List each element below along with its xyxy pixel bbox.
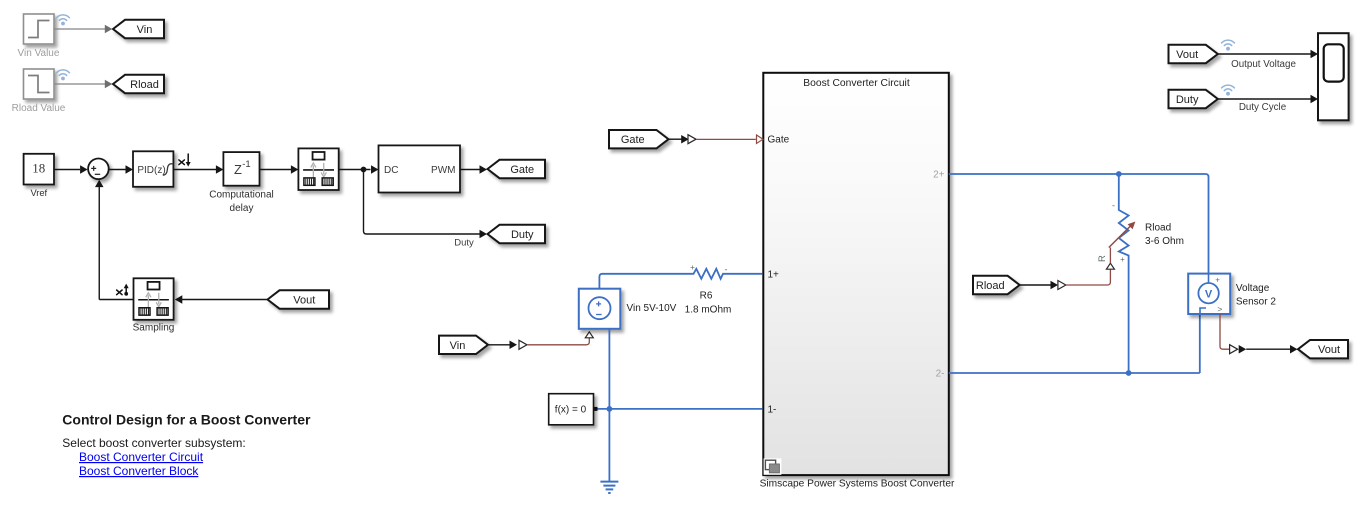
svg-text:Boost Converter Circuit: Boost Converter Circuit xyxy=(803,78,910,89)
svg-text:PID(z): PID(z) xyxy=(137,165,165,176)
svg-text:Rload: Rload xyxy=(976,280,1005,292)
svg-text:1.8 mOhm: 1.8 mOhm xyxy=(685,304,732,315)
svg-text:Duty: Duty xyxy=(454,238,474,249)
svg-text:-: - xyxy=(1112,201,1115,211)
svg-text:Computational: Computational xyxy=(209,189,273,200)
svg-text:Vin: Vin xyxy=(137,24,153,36)
svg-text:+: + xyxy=(1215,275,1220,284)
svg-text:R6: R6 xyxy=(700,290,713,301)
svg-text:Boost Converter Circuit: Boost Converter Circuit xyxy=(79,450,204,464)
svg-text:Output Voltage: Output Voltage xyxy=(1231,59,1296,70)
svg-text:Gate: Gate xyxy=(621,134,645,146)
svg-text:Duty Cycle: Duty Cycle xyxy=(1239,102,1287,113)
svg-text:Gate: Gate xyxy=(510,164,534,176)
svg-text:-1: -1 xyxy=(242,159,250,170)
svg-text:Control Design for a Boost Con: Control Design for a Boost Converter xyxy=(62,411,311,427)
svg-text:-: - xyxy=(725,264,728,274)
svg-text:Rload: Rload xyxy=(130,79,159,91)
svg-text:Gate: Gate xyxy=(768,135,790,146)
svg-text:1-: 1- xyxy=(768,405,777,416)
svg-text:R: R xyxy=(1097,255,1108,262)
svg-text:Vref: Vref xyxy=(30,188,47,198)
svg-text:>: > xyxy=(1217,304,1222,314)
svg-text:18: 18 xyxy=(32,161,45,176)
svg-text:delay: delay xyxy=(230,203,254,214)
svg-text:Duty: Duty xyxy=(511,229,534,241)
svg-text:DC: DC xyxy=(384,165,398,176)
svg-text:Vout: Vout xyxy=(1176,49,1198,61)
svg-text:Vout: Vout xyxy=(293,295,315,307)
svg-text:Sampling: Sampling xyxy=(133,323,175,334)
svg-text:f(x) = 0: f(x) = 0 xyxy=(555,405,587,416)
svg-text:Duty: Duty xyxy=(1176,94,1199,106)
svg-text:Z: Z xyxy=(234,162,242,177)
svg-text:Select boost converter subsyst: Select boost converter subsystem: xyxy=(62,436,245,450)
svg-text:2+: 2+ xyxy=(933,169,945,180)
svg-text:V: V xyxy=(1205,289,1213,301)
svg-text:Rload Value: Rload Value xyxy=(12,103,66,114)
svg-text:PWM: PWM xyxy=(431,165,455,176)
svg-text:Boost Converter Block: Boost Converter Block xyxy=(79,464,199,478)
svg-text:+: + xyxy=(1120,255,1125,264)
svg-text:Vout: Vout xyxy=(1318,344,1340,356)
svg-text:Vin: Vin xyxy=(450,340,466,352)
svg-text:Vin Value: Vin Value xyxy=(18,48,60,59)
svg-text:2-: 2- xyxy=(936,368,945,379)
svg-text:+: + xyxy=(690,263,695,272)
svg-text:Sensor 2: Sensor 2 xyxy=(1236,296,1276,307)
svg-text:Voltage: Voltage xyxy=(1236,283,1270,294)
svg-text:Vin 5V-10V: Vin 5V-10V xyxy=(627,303,677,314)
svg-text:1+: 1+ xyxy=(768,269,780,280)
svg-text:Rload: Rload xyxy=(1145,222,1171,233)
svg-text:Simscape Power Systems Boost C: Simscape Power Systems Boost Converter xyxy=(760,478,955,489)
svg-text:3-6 Ohm: 3-6 Ohm xyxy=(1145,236,1184,247)
